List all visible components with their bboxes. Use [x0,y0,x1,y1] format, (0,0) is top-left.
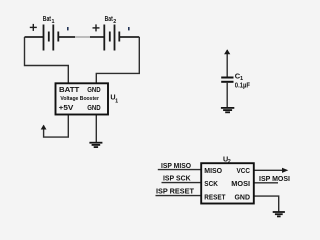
svg-text:2: 2 [113,19,116,25]
wire between batteries [58,36,75,38]
battery Bat1 [44,25,59,51]
svg-text:ISP SCK: ISP SCK [163,174,191,183]
svg-text:0.1µF: 0.1µF [235,81,251,90]
svg-text:Bat: Bat [43,14,52,23]
capacitor C1 [221,78,233,82]
svg-text:BATT: BATT [59,85,80,94]
svg-text:MISO: MISO [204,166,222,175]
ground (under U2 GND) [273,212,285,216]
svg-text:GND: GND [87,85,101,94]
arrow VCC (right) [282,168,288,173]
plus sign Bat2 [93,24,100,31]
battery Bat2 [104,25,119,51]
svg-text:VCC: VCC [237,166,251,175]
wire left drop to U1 BATT [25,37,69,83]
svg-text:ISP MOSI: ISP MOSI [259,174,290,183]
arrow +5V rail (up, above capacitor) [224,49,230,54]
wire ISP MOSI stub [254,182,278,184]
wire right drop to U1 GND top [96,37,139,83]
svg-text:SCK: SCK [204,179,218,188]
wire top rail left segment [25,36,44,38]
minus tick Bat2 [128,27,130,30]
svg-text:GND: GND [235,192,251,201]
svg-text:MOSI: MOSI [231,179,250,188]
wire capacitor bottom [226,83,228,108]
svg-text:ISP RESET: ISP RESET [156,187,195,196]
svg-text:Voltage Booster: Voltage Booster [60,96,99,102]
svg-text:GND: GND [87,103,101,112]
wire ISP RESET stub [156,195,202,197]
ground (under U1) [89,143,102,147]
plus sign Bat1 [30,24,37,31]
svg-text:1: 1 [52,19,55,25]
IC U2 box [201,163,254,203]
wire capacitor top [226,50,228,77]
wire ISP SCK stub [162,182,202,184]
wire U2 GND to ground [254,196,279,212]
wire U1 +5V down-left [44,115,69,138]
arrow +5V (up) [41,125,47,130]
wire top rail right segment [119,36,139,38]
ground (under C1) [221,108,234,112]
wire ISP MISO stub [158,169,201,171]
svg-text:ISP MISO: ISP MISO [161,161,191,170]
svg-text:RESET: RESET [204,192,225,201]
svg-text:1: 1 [115,98,118,104]
minus tick Bat1 [67,27,69,30]
wire U1 GND down [95,115,97,143]
voltage booster U1 [56,83,109,114]
wire U2 VCC to arrow [254,169,283,171]
svg-text:+5V: +5V [59,103,75,112]
svg-text:2: 2 [228,159,231,165]
svg-text:Bat: Bat [105,14,114,23]
